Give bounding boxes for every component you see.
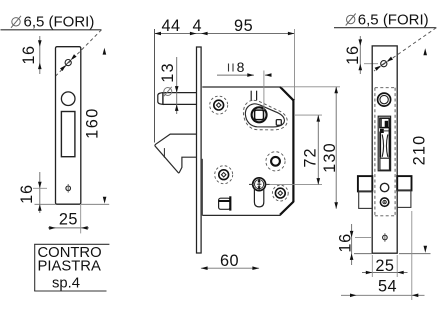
latch bolt (side view) [158,93,197,105]
dim 54 [341,211,425,300]
svg-text:95: 95 [234,17,253,35]
follower dashed teardrop [243,100,287,130]
dim diameter 13 (latch) [159,57,179,114]
follower square hole [255,110,264,120]
dim 210 [399,48,431,253]
hook bolt front view blocks left [358,176,372,208]
hook bolt front view blocks right [397,176,411,207]
cylinder circle (front plate) [380,183,388,191]
label diameter 6,5 FORI (right) [334,11,436,28]
screw post upper [210,96,228,114]
cylinder centerline ticks [249,183,270,185]
latch window (front plate) [378,116,390,171]
counter plate outline [56,47,81,205]
screw post lower [215,166,233,184]
spring ticks above follower [251,91,256,101]
label diameter 6,5 FORI (left) [1,14,102,31]
svg-text:72: 72 [302,147,320,167]
front plate outline [372,46,397,253]
svg-text:210: 210 [410,135,428,166]
svg-text:160: 160 [84,107,102,139]
svg-text:60: 60 [220,252,239,270]
hole 6,5 (front plate) [381,61,387,67]
leader dashed line to hole (left) [56,30,102,76]
dim 16 bottom-left [18,172,55,213]
hidden case dashed outline [375,88,395,216]
lock case outline [202,87,293,215]
euro cylinder (side view) [253,178,266,207]
hole 6,5 top (left plate) [65,60,71,66]
big circle (spindle hole) [266,152,285,171]
dim 16 top-right [344,36,378,74]
dim 60 [201,252,259,270]
small hole bottom (front plate) [383,233,388,242]
extension line right (case edge) [294,29,296,100]
svg-text:16: 16 [18,184,36,204]
screw circle (front plate) [380,198,388,206]
svg-text:16: 16 [20,45,38,64]
dim 25 (left plate) [48,205,89,233]
dim 16 top-left [20,36,41,74]
title box CONTRO PIASTRA sp.4 [34,244,109,291]
leader dashed line to hole (right) [374,28,436,71]
svg-text:4: 4 [193,17,203,35]
svg-text:44: 44 [161,17,180,35]
hook bolt (side view) [155,134,197,173]
dim 160 (left plate) [81,48,109,205]
dim line 44 / 4 / 95 [154,17,294,35]
screw post bottom-right [272,185,288,201]
extension line left (hook edge) [154,29,156,143]
small hole bottom (left plate) [66,184,71,193]
svg-text:54: 54 [378,278,397,296]
screw hole double circle (front plate) [378,93,391,106]
svg-text:13: 13 [159,62,177,83]
dim 16 bottom-right [336,224,372,265]
svg-text:PIASTRA: PIASTRA [38,258,101,274]
svg-text:25: 25 [375,257,394,275]
dim 8 (follower square) [217,59,272,110]
svg-text:16: 16 [336,233,354,253]
dim 130 [281,87,340,209]
cam stop small part [219,196,231,210]
faceplate (side view) [197,47,202,253]
svg-text:8: 8 [237,59,245,75]
svg-text:25: 25 [59,211,78,229]
svg-text:6,5 (FORI): 6,5 (FORI) [24,14,95,31]
svg-text:16: 16 [344,45,362,65]
circle hole (left plate) [61,92,75,106]
follower hub circle [252,107,267,122]
follower solid teardrop [245,104,284,127]
dim 72 [270,115,322,185]
slot (left plate) [61,112,75,157]
dim 25 (front plate) [362,255,408,277]
svg-text:130: 130 [321,142,339,173]
small square near follower tip [276,120,281,126]
svg-text:6,5 (FORI): 6,5 (FORI) [358,11,429,28]
svg-text:sp.4: sp.4 [52,276,80,292]
